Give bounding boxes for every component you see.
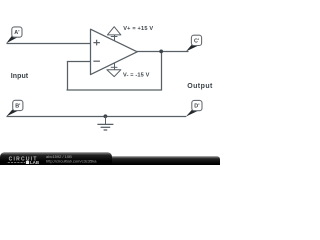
- wire inverting input: [67, 61, 91, 63]
- node A' callout: [6, 27, 22, 43]
- svg-text:Input: Input: [11, 73, 29, 80]
- svg-text:A': A': [14, 30, 19, 36]
- svg-text:V- = -15 V: V- = -15 V: [123, 72, 150, 78]
- node D' callout: [186, 100, 202, 116]
- wire feedback right vertical: [161, 52, 163, 91]
- svg-text:http;//circuitlab.com/c3c35ka: http;//circuitlab.com/c3c35ka: [46, 158, 97, 163]
- svg-text:B': B': [15, 104, 20, 110]
- power pin V+ arrow: [107, 27, 121, 41]
- node output junction: [159, 50, 163, 54]
- svg-text:Output: Output: [187, 83, 213, 90]
- wire noninverting input: [7, 43, 92, 45]
- wire ground bus: [7, 116, 187, 118]
- node B' callout: [6, 100, 23, 116]
- wire feedback left vertical: [67, 61, 69, 90]
- power pin V- arrow: [107, 63, 121, 77]
- banner bar: [0, 156, 220, 170]
- svg-text:D': D': [194, 104, 199, 110]
- wire feedback bottom horizontal: [67, 89, 162, 91]
- ground: [97, 114, 113, 130]
- banner tab: [0, 152, 112, 168]
- svg-text:V+ = +15 V: V+ = +15 V: [123, 26, 153, 32]
- svg-text:C': C': [194, 38, 199, 44]
- logo CircuitLab: [8, 156, 39, 165]
- op-amp U1: [91, 29, 138, 74]
- svg-text:LAB: LAB: [30, 160, 39, 165]
- wire output: [137, 51, 189, 53]
- node C' callout: [186, 35, 202, 51]
